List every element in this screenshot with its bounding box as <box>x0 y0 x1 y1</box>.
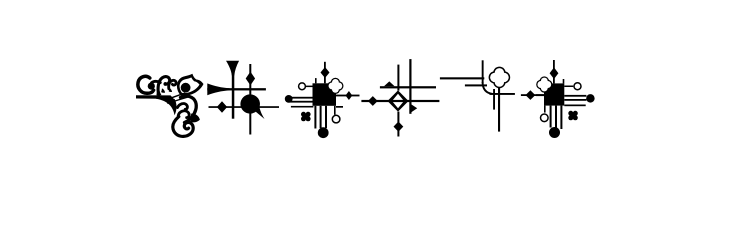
ornament 4: crossing lines with open diamond <box>361 59 439 136</box>
bottom diamond <box>394 122 404 132</box>
ring bottom right <box>332 115 340 123</box>
bar <box>136 95 174 99</box>
flag triangle on vertical 2 <box>410 103 417 113</box>
wave foot <box>156 87 161 96</box>
quatrefoil black silhouette <box>489 67 511 89</box>
right arm line 2 <box>564 99 586 101</box>
right arm line <box>336 95 360 97</box>
horn left <box>207 83 229 95</box>
tick above square <box>315 78 317 83</box>
x-quatrefoil <box>301 112 311 122</box>
bottom vertical 3 <box>560 106 562 129</box>
elbow curve <box>483 82 493 94</box>
ornament 5: corner with quatrefoil <box>440 60 544 131</box>
up triangle on line A <box>384 81 395 86</box>
top vertical <box>324 62 326 84</box>
right arm circle <box>586 94 595 103</box>
second crest petal <box>169 88 172 92</box>
diamond top <box>321 67 330 78</box>
epsilon outer arc <box>181 96 197 122</box>
tick down to ring <box>334 106 336 115</box>
trumpet flare top <box>226 61 239 76</box>
tick above square <box>563 79 565 83</box>
x-quatrefoil <box>568 111 578 121</box>
knot wedge <box>156 95 177 115</box>
left arm line 3 <box>291 106 314 108</box>
diamond on vertical <box>246 72 255 86</box>
left arm line <box>536 94 544 96</box>
C-scroll outer <box>138 76 154 93</box>
ornament 6: square medallion right-facing <box>536 60 595 138</box>
bottom vertical 3 <box>325 106 327 128</box>
leaf outline outer <box>177 74 204 96</box>
central square <box>544 83 564 105</box>
bottom vertical 1 <box>314 106 316 129</box>
line H3 <box>490 93 515 95</box>
vertical line 1 <box>397 65 399 91</box>
dash ring to square <box>305 86 312 88</box>
quatrefoil white inner <box>490 68 509 87</box>
line L2 <box>465 84 487 86</box>
short vertical <box>493 89 495 110</box>
diamond top <box>550 67 559 79</box>
horizontal line 1 <box>207 88 266 90</box>
right arm line <box>521 94 544 96</box>
ring top right <box>574 83 581 90</box>
quatrefoil white inner <box>537 78 551 92</box>
vertical line 2 <box>249 64 251 135</box>
right arm diamond <box>526 90 536 100</box>
quatrefoil black silhouette <box>327 78 343 94</box>
bottom circle <box>549 127 560 138</box>
left arm line 1 <box>289 97 313 99</box>
dash square to ring <box>564 86 573 88</box>
bottom vertical 2 <box>320 106 322 128</box>
bottom vertical 1 <box>550 106 552 128</box>
ring bottom left <box>541 114 549 122</box>
C-scroll tongue tail <box>152 81 161 82</box>
wave crest knob <box>164 82 168 86</box>
bottom spiral <box>173 117 193 137</box>
left filled diamond <box>368 96 378 106</box>
quatrefoil black silhouette <box>536 76 552 92</box>
wave petal <box>161 88 165 92</box>
top vertical <box>553 60 555 83</box>
vertical line 2 <box>409 59 411 114</box>
left arm circle <box>285 95 293 103</box>
bottom leaf <box>190 114 200 123</box>
right arm line 3 <box>564 105 585 107</box>
central square <box>313 83 337 106</box>
wave curl <box>158 77 170 95</box>
ornament 2: cross with trumpet, horn, diamonds and circle <box>207 61 279 135</box>
bottom circle <box>318 127 329 138</box>
right arm diamond <box>346 91 353 100</box>
ring left <box>299 83 306 90</box>
bottom stem <box>397 112 399 137</box>
dot <box>181 83 191 93</box>
ornament 3: square medallion left-facing <box>285 62 360 138</box>
tick down to ring <box>544 106 546 113</box>
leaf inner white <box>180 78 200 94</box>
whisker 1 <box>165 93 185 100</box>
whisker 2 <box>168 97 188 103</box>
line B lower horizontal <box>361 100 439 102</box>
epsilon tongue 2 <box>178 111 189 118</box>
long line L1 <box>440 77 484 79</box>
C-scroll tongue knob <box>148 83 155 90</box>
quatrefoil white inner <box>329 79 343 93</box>
open diamond <box>388 90 409 111</box>
diamond on horizontal <box>217 101 227 113</box>
line A upper horizontal <box>380 86 436 88</box>
circle with tail <box>240 94 264 119</box>
left arm line 2 <box>289 101 313 103</box>
right arm line 2 <box>336 106 343 108</box>
epsilon tongue 1 <box>178 104 188 110</box>
right arm line 1 <box>564 95 586 97</box>
second crest <box>169 80 176 88</box>
stem vertical 1 <box>232 70 235 119</box>
ornament 1: floral corner fleuron <box>136 74 204 137</box>
bottom vertical 2 <box>555 106 557 128</box>
horizontal line 2 <box>209 106 280 108</box>
vertical V1 <box>482 60 484 83</box>
stem below quatrefoil <box>498 87 500 132</box>
